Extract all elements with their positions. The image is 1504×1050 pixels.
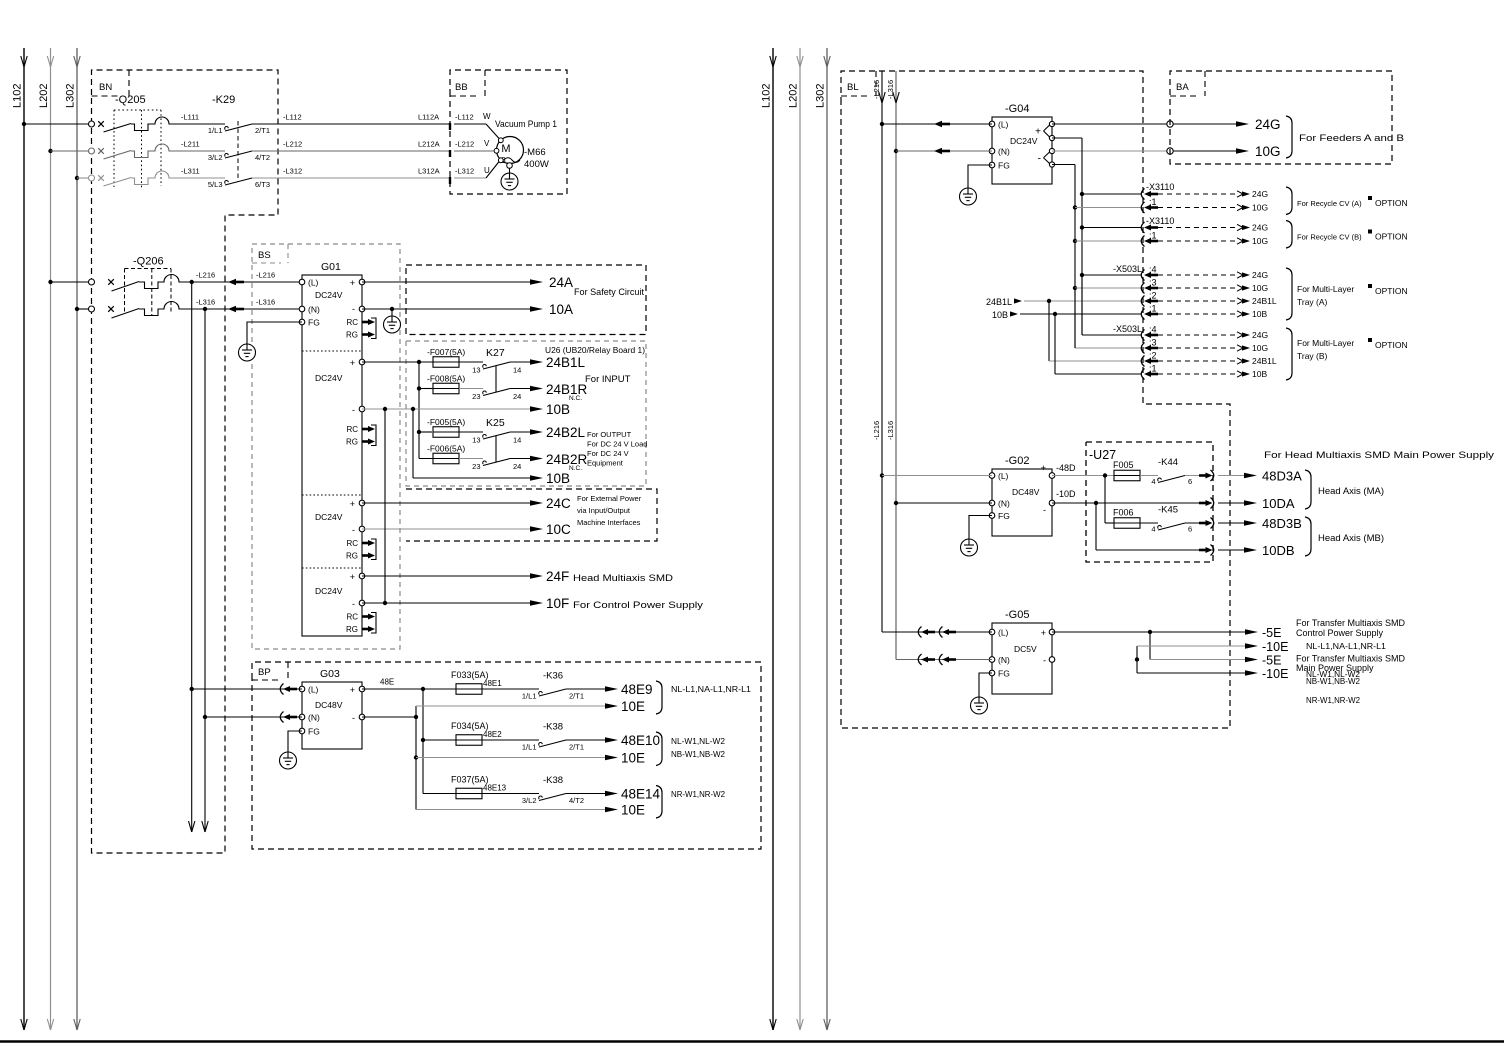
- svg-text:+: +: [350, 572, 355, 582]
- svg-text:NR-W1,NR-W2: NR-W1,NR-W2: [671, 790, 726, 799]
- svg-text:OPTION: OPTION: [1375, 286, 1408, 296]
- svg-text:DC48V: DC48V: [315, 700, 343, 710]
- svg-text:-L316: -L316: [196, 298, 215, 307]
- svg-text:For Safety Circuit: For Safety Circuit: [574, 287, 644, 298]
- svg-text:2/T1: 2/T1: [569, 692, 584, 701]
- svg-text:10B: 10B: [992, 310, 1008, 320]
- svg-text:-X503L: -X503L: [1113, 264, 1142, 274]
- svg-text:RG: RG: [346, 625, 358, 634]
- svg-text:-10E: -10E: [1262, 640, 1288, 654]
- svg-text:-10D: -10D: [1056, 489, 1076, 499]
- svg-text:N.C.: N.C.: [569, 395, 582, 402]
- svg-text:4: 4: [1151, 525, 1155, 534]
- svg-text:1/L1: 1/L1: [522, 692, 537, 701]
- svg-text:-L212: -L212: [455, 140, 474, 149]
- svg-text:BB: BB: [455, 82, 468, 93]
- svg-text:BL: BL: [847, 82, 859, 93]
- svg-text:For Transfer Multiaxis SMD: For Transfer Multiaxis SMD: [1296, 654, 1406, 664]
- svg-text:24B1L: 24B1L: [1252, 296, 1277, 306]
- svg-text:-G04: -G04: [1005, 103, 1029, 115]
- svg-text:-G02: -G02: [1005, 455, 1029, 467]
- svg-text:24A: 24A: [549, 275, 573, 290]
- svg-text:DC5V: DC5V: [1014, 644, 1037, 654]
- svg-text:RG: RG: [346, 331, 358, 340]
- svg-text:For External Power: For External Power: [577, 494, 642, 503]
- svg-text:NB-W1,NB-W2: NB-W1,NB-W2: [1306, 677, 1361, 686]
- svg-text:-X503L: -X503L: [1113, 324, 1142, 334]
- svg-text:-K29: -K29: [212, 94, 235, 106]
- svg-text:F006: F006: [1113, 508, 1134, 518]
- svg-text:DC24V: DC24V: [1010, 136, 1038, 146]
- svg-text:-F006(5A): -F006(5A): [427, 444, 465, 454]
- svg-text:14: 14: [513, 436, 521, 445]
- svg-text:FG: FG: [998, 161, 1010, 171]
- svg-text:10B: 10B: [1252, 369, 1267, 379]
- svg-text:+: +: [1041, 463, 1046, 473]
- svg-text:L312A: L312A: [418, 167, 440, 176]
- svg-text:L202: L202: [38, 84, 50, 108]
- svg-text:10DA: 10DA: [1262, 496, 1295, 511]
- svg-text:K27: K27: [486, 347, 505, 359]
- svg-text:(N): (N): [998, 147, 1010, 157]
- svg-text:For Multi-Layer: For Multi-Layer: [1297, 338, 1354, 348]
- svg-text:13: 13: [472, 436, 480, 445]
- svg-text:DC48V: DC48V: [1012, 487, 1040, 497]
- svg-text:48E13: 48E13: [483, 783, 507, 792]
- svg-text:-: -: [1043, 505, 1046, 515]
- svg-text:+: +: [1041, 628, 1046, 638]
- svg-text:(L): (L): [998, 471, 1009, 481]
- svg-text:-K38: -K38: [543, 775, 563, 786]
- svg-text:For Recycle CV (B): For Recycle CV (B): [1297, 233, 1362, 242]
- svg-text:For OUTPUT: For OUTPUT: [587, 430, 632, 439]
- svg-text:RC: RC: [346, 613, 358, 622]
- svg-text:-L112: -L112: [283, 113, 302, 122]
- svg-text:5/L3: 5/L3: [208, 180, 223, 189]
- svg-text:-5E: -5E: [1262, 654, 1281, 668]
- svg-text:via Input/Output: via Input/Output: [577, 506, 631, 515]
- svg-text:(L): (L): [998, 120, 1009, 130]
- svg-text:-: -: [352, 525, 355, 535]
- svg-text:-L316: -L316: [256, 298, 275, 307]
- svg-text:24G: 24G: [1252, 223, 1268, 233]
- svg-text:-5E: -5E: [1262, 626, 1281, 640]
- svg-text:-M66: -M66: [524, 147, 546, 158]
- svg-text:2/T1: 2/T1: [569, 743, 584, 752]
- svg-text:24G: 24G: [1252, 330, 1268, 340]
- svg-text:24B2L: 24B2L: [546, 425, 586, 440]
- svg-text:RC: RC: [346, 318, 358, 327]
- svg-text:OPTION: OPTION: [1375, 232, 1408, 242]
- svg-text:Head Multiaxis SMD: Head Multiaxis SMD: [573, 573, 673, 584]
- svg-text:48E10: 48E10: [621, 733, 660, 748]
- svg-text:-L111: -L111: [181, 113, 199, 122]
- svg-text:24C: 24C: [546, 496, 571, 511]
- svg-text:For Feeders A and B: For Feeders A and B: [1299, 133, 1404, 143]
- svg-text:-L312: -L312: [283, 167, 302, 176]
- svg-text:24F: 24F: [546, 569, 569, 584]
- svg-text:G03: G03: [320, 668, 340, 680]
- svg-text:2/T1: 2/T1: [255, 126, 270, 135]
- svg-text:10B: 10B: [546, 402, 570, 417]
- svg-text:RG: RG: [346, 552, 358, 561]
- svg-text:L202: L202: [788, 84, 800, 108]
- svg-text:-K44: -K44: [1158, 457, 1178, 468]
- svg-text:For Control Power Supply: For Control Power Supply: [573, 600, 703, 611]
- svg-text:(N): (N): [998, 499, 1010, 509]
- svg-text:24G: 24G: [1255, 117, 1281, 132]
- svg-text:-: -: [352, 599, 355, 609]
- svg-text:4: 4: [1151, 477, 1155, 486]
- svg-text:-: -: [352, 304, 355, 314]
- svg-text:-K45: -K45: [1158, 505, 1178, 516]
- svg-text:-Q205: -Q205: [115, 94, 146, 106]
- svg-text:RC: RC: [346, 425, 358, 434]
- svg-text:N.C.: N.C.: [569, 465, 582, 472]
- svg-text:10B: 10B: [546, 471, 570, 486]
- svg-text:10A: 10A: [549, 302, 573, 317]
- svg-text:24G: 24G: [1252, 270, 1268, 280]
- svg-text:24B1L: 24B1L: [1252, 356, 1277, 366]
- svg-text:DC24V: DC24V: [315, 290, 343, 300]
- svg-text:-F008(5A): -F008(5A): [427, 374, 465, 384]
- svg-text:W: W: [483, 112, 491, 121]
- svg-text:-X3110: -X3110: [1146, 216, 1174, 226]
- svg-text:10F: 10F: [546, 596, 569, 611]
- svg-text:BP: BP: [258, 667, 271, 678]
- svg-text:3/L2: 3/L2: [208, 153, 223, 162]
- svg-text:+: +: [350, 278, 355, 288]
- svg-text:Control Power Supply: Control Power Supply: [1296, 628, 1384, 638]
- svg-text:(N): (N): [308, 713, 320, 723]
- svg-text:6: 6: [1188, 525, 1192, 534]
- svg-text:48E: 48E: [380, 678, 394, 687]
- svg-text:(L): (L): [998, 628, 1009, 638]
- svg-text:L112A: L112A: [418, 113, 439, 122]
- svg-text:U26 (UB20/Relay Board 1): U26 (UB20/Relay Board 1): [545, 346, 645, 355]
- svg-text:DC24V: DC24V: [315, 586, 343, 596]
- svg-text:BS: BS: [258, 250, 271, 261]
- svg-text:Head Axis (MA): Head Axis (MA): [1318, 486, 1384, 497]
- svg-text:10E: 10E: [621, 751, 645, 766]
- svg-text:M: M: [501, 143, 510, 155]
- svg-text:BN: BN: [99, 82, 112, 93]
- svg-text:3/L2: 3/L2: [522, 796, 537, 805]
- svg-text:-X3110: -X3110: [1146, 182, 1174, 192]
- svg-text:-L316: -L316: [886, 80, 895, 99]
- svg-text:10G: 10G: [1252, 343, 1268, 353]
- svg-text:For DC 24 V: For DC 24 V: [587, 449, 629, 458]
- svg-text:F005: F005: [1113, 460, 1134, 470]
- svg-text:G01: G01: [321, 261, 341, 273]
- svg-text:(L): (L): [308, 278, 319, 288]
- svg-text:NB-W1,NB-W2: NB-W1,NB-W2: [671, 750, 726, 759]
- svg-text:48D3B: 48D3B: [1262, 516, 1302, 531]
- svg-text:48D3A: 48D3A: [1262, 469, 1302, 484]
- svg-text:-L216: -L216: [872, 421, 881, 440]
- svg-text:L302: L302: [815, 84, 827, 108]
- svg-text:Vacuum Pump 1: Vacuum Pump 1: [495, 119, 557, 129]
- svg-text:For Recycle CV (A): For Recycle CV (A): [1297, 199, 1362, 208]
- svg-text:1/L1: 1/L1: [522, 743, 537, 752]
- svg-text:NL-L1,NA-L1,NR-L1: NL-L1,NA-L1,NR-L1: [1306, 642, 1387, 651]
- svg-text:OPTION: OPTION: [1375, 198, 1408, 208]
- svg-text:4/T2: 4/T2: [255, 153, 270, 162]
- svg-text:10G: 10G: [1255, 144, 1281, 159]
- svg-text:(L): (L): [308, 685, 319, 695]
- svg-text:NL-W1,NL-W2: NL-W1,NL-W2: [671, 737, 726, 746]
- svg-text:4/T2: 4/T2: [569, 796, 584, 805]
- svg-text:(N): (N): [308, 305, 320, 315]
- svg-text:-K36: -K36: [543, 671, 563, 682]
- svg-text:K25: K25: [486, 417, 505, 429]
- svg-text:6: 6: [1188, 477, 1192, 486]
- svg-text:-L211: -L211: [181, 140, 200, 149]
- svg-text:BA: BA: [1176, 82, 1189, 93]
- svg-text:L212A: L212A: [418, 140, 440, 149]
- svg-text:-: -: [352, 713, 355, 723]
- svg-text:V: V: [484, 139, 490, 148]
- svg-text:48E9: 48E9: [621, 682, 653, 697]
- svg-text:+: +: [350, 499, 355, 509]
- svg-text:-L112: -L112: [455, 113, 474, 122]
- svg-text:-L216: -L216: [256, 271, 275, 280]
- svg-text:400W: 400W: [524, 159, 549, 170]
- svg-text:FG: FG: [308, 318, 320, 328]
- svg-text:Tray (A): Tray (A): [1297, 297, 1328, 307]
- svg-text:-L316: -L316: [886, 421, 895, 440]
- svg-text:NR-W1,NR-W2: NR-W1,NR-W2: [1306, 696, 1361, 705]
- svg-text:24: 24: [513, 392, 521, 401]
- svg-text:For INPUT: For INPUT: [585, 374, 631, 385]
- svg-text:Head Axis (MB): Head Axis (MB): [1318, 533, 1384, 544]
- svg-text:(N): (N): [998, 655, 1010, 665]
- svg-text:10C: 10C: [546, 522, 571, 537]
- svg-text:48E1: 48E1: [483, 679, 502, 688]
- svg-text:FG: FG: [308, 727, 320, 737]
- svg-text:10G: 10G: [1252, 203, 1268, 213]
- svg-text:DC24V: DC24V: [315, 373, 343, 383]
- svg-text:FG: FG: [998, 669, 1010, 679]
- svg-text:Tray (B): Tray (B): [1297, 351, 1328, 361]
- svg-text:L302: L302: [65, 84, 77, 108]
- svg-text:NL-L1,NA-L1,NR-L1: NL-L1,NA-L1,NR-L1: [671, 685, 752, 694]
- svg-text:10E: 10E: [621, 699, 645, 714]
- svg-text:FG: FG: [998, 511, 1010, 521]
- svg-text:For Multi-Layer: For Multi-Layer: [1297, 284, 1354, 294]
- svg-text:14: 14: [513, 366, 521, 375]
- svg-text:24B1L: 24B1L: [546, 355, 586, 370]
- svg-text:48E2: 48E2: [483, 730, 502, 739]
- svg-text:For DC 24 V Load: For DC 24 V Load: [587, 440, 647, 449]
- svg-text:-L212: -L212: [283, 140, 302, 149]
- svg-text:For Transfer Multiaxis SMD: For Transfer Multiaxis SMD: [1296, 618, 1406, 628]
- svg-text:23: 23: [472, 462, 480, 471]
- svg-text:+: +: [1035, 127, 1041, 138]
- svg-text:-: -: [352, 405, 355, 415]
- svg-text:23: 23: [472, 392, 480, 401]
- svg-text:RC: RC: [346, 539, 358, 548]
- svg-text:-L311: -L311: [181, 167, 200, 176]
- svg-text:48E14: 48E14: [621, 787, 661, 802]
- svg-text:-G05: -G05: [1005, 609, 1029, 621]
- svg-text:24G: 24G: [1252, 189, 1268, 199]
- svg-text:L102: L102: [761, 84, 773, 108]
- svg-text:-: -: [1043, 656, 1046, 666]
- svg-text:10G: 10G: [1252, 283, 1268, 293]
- svg-text:L102: L102: [12, 84, 24, 108]
- svg-text:-F007(5A): -F007(5A): [427, 347, 465, 357]
- svg-text:-: -: [1038, 153, 1041, 164]
- svg-text:RG: RG: [346, 438, 358, 447]
- svg-text:10B: 10B: [1252, 309, 1267, 319]
- svg-text:-48D: -48D: [1056, 463, 1076, 473]
- svg-text:+: +: [350, 358, 355, 368]
- svg-text:DC24V: DC24V: [315, 512, 343, 522]
- svg-text:+: +: [350, 685, 355, 695]
- svg-text:Machine Interfaces: Machine Interfaces: [577, 518, 641, 527]
- svg-text:-L312: -L312: [455, 167, 474, 176]
- svg-text:-K38: -K38: [543, 722, 563, 733]
- svg-text:10DB: 10DB: [1262, 543, 1295, 558]
- svg-text:10E: 10E: [621, 803, 645, 818]
- svg-text:10G: 10G: [1252, 236, 1268, 246]
- svg-text:-Q206: -Q206: [133, 256, 164, 268]
- svg-text:24B1L: 24B1L: [986, 297, 1012, 307]
- svg-text:24: 24: [513, 462, 521, 471]
- svg-text:13: 13: [472, 366, 480, 375]
- svg-text:-F005(5A): -F005(5A): [427, 417, 465, 427]
- svg-text:-10E: -10E: [1262, 667, 1288, 681]
- svg-text:-L216: -L216: [196, 271, 215, 280]
- svg-text:-L216: -L216: [872, 80, 881, 99]
- svg-text:1/L1: 1/L1: [208, 126, 223, 135]
- svg-text:Equipment: Equipment: [587, 459, 624, 468]
- svg-text:6/T3: 6/T3: [255, 180, 270, 189]
- svg-text:For Head Multiaxis SMD Main Po: For Head Multiaxis SMD Main Power Supply: [1264, 450, 1494, 461]
- svg-text:OPTION: OPTION: [1375, 340, 1408, 350]
